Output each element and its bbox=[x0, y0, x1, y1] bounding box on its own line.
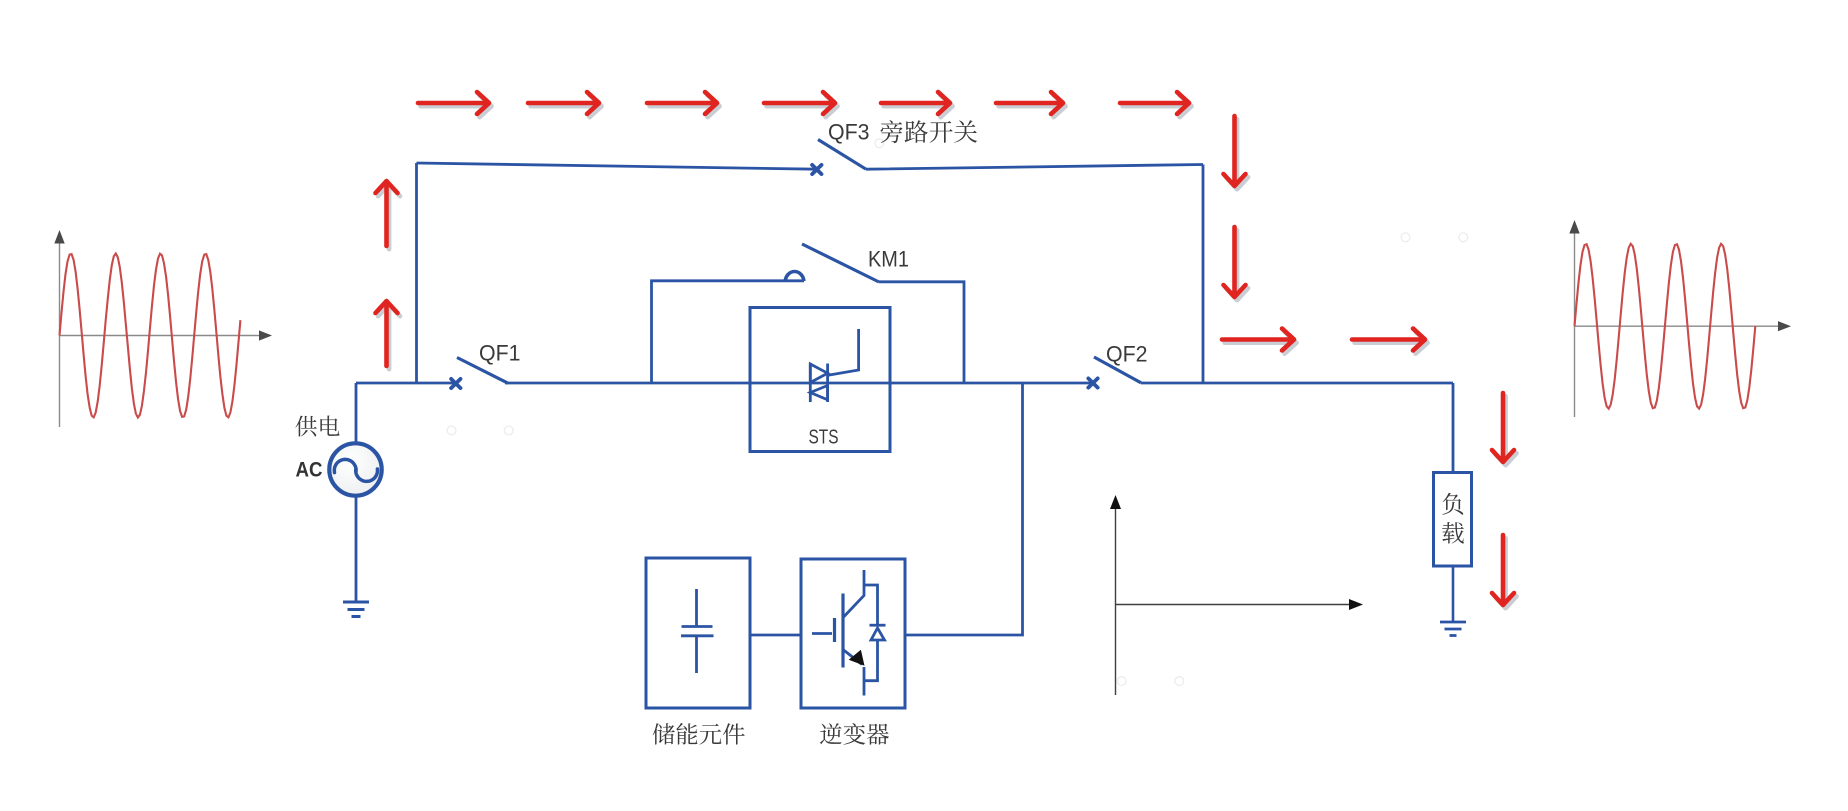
AC source top wire bbox=[355, 383, 358, 445]
contactor KM1 branch wire bbox=[652, 281, 965, 383]
load bottom wire bbox=[1452, 566, 1455, 622]
AC source bottom wire bbox=[355, 497, 358, 603]
flow arrow top 2 bbox=[528, 92, 602, 117]
bypass left riser wire bbox=[415, 163, 418, 383]
load drop wire bbox=[1452, 383, 1455, 472]
svg-text:QF2: QF2 bbox=[1106, 342, 1148, 367]
flow arrow top 4 bbox=[764, 92, 838, 117]
flow arrow load 2 bbox=[1492, 535, 1517, 608]
wire storage to inverter bbox=[750, 634, 801, 637]
energy storage box bbox=[646, 558, 750, 708]
flow arrow load 1 bbox=[1492, 393, 1517, 465]
middle chart axes bbox=[1116, 503, 1357, 695]
flow arrow right 2 bbox=[1352, 329, 1428, 354]
bypass top wire bbox=[417, 163, 1204, 169]
output sine wave (right) bbox=[1575, 244, 1756, 409]
label energy storage element bbox=[653, 723, 675, 744]
IGBT Q1 with freewheel diode bbox=[812, 570, 886, 696]
svg-text:QF1: QF1 bbox=[479, 341, 521, 366]
load ground bbox=[1440, 622, 1466, 636]
flow arrow top 5 bbox=[881, 92, 953, 117]
contactor KM1 contact bbox=[785, 244, 879, 282]
input sine wave (left) bbox=[60, 254, 241, 418]
faint artifact circles bbox=[447, 139, 1468, 686]
flow arrow right 1 bbox=[1222, 329, 1297, 354]
flow arrow top 7 bbox=[1120, 92, 1192, 117]
wire inverter to bus riser bbox=[905, 383, 1023, 635]
source ground bbox=[343, 602, 369, 617]
flow arrow top 6 bbox=[996, 92, 1066, 117]
flow arrow up 1 bbox=[376, 181, 401, 249]
flow arrow top 1 bbox=[418, 92, 492, 117]
load box bbox=[1434, 473, 1472, 567]
flow arrow down 1 bbox=[1224, 116, 1249, 189]
main bus wire (horizontal) bbox=[356, 382, 1453, 385]
STS box U1 bbox=[750, 308, 890, 452]
flow arrow up 2 bbox=[376, 301, 401, 369]
svg-text:STS: STS bbox=[809, 426, 839, 449]
flow arrow top 3 bbox=[647, 92, 720, 117]
svg-text:QF3: QF3 bbox=[828, 120, 870, 145]
label load (vertical) bbox=[1442, 493, 1463, 515]
capacitor C1 bbox=[681, 589, 714, 673]
breaker QF3 bbox=[812, 140, 866, 175]
label bypass switch (Chinese) bbox=[881, 120, 903, 143]
bypass right riser wire bbox=[1202, 165, 1205, 384]
STS bidirectional thyristor bbox=[810, 329, 858, 402]
output waveform axes (right) bbox=[1575, 226, 1786, 417]
inverter box bbox=[801, 559, 905, 708]
breaker QF2 bbox=[1088, 357, 1141, 388]
svg-text:KM1: KM1 bbox=[868, 247, 909, 272]
input waveform axes (left) bbox=[60, 236, 267, 427]
label gong dian (supply) bbox=[295, 416, 316, 437]
label inverter bbox=[820, 723, 842, 744]
svg-text:AC: AC bbox=[296, 458, 323, 482]
flow arrow down 2 bbox=[1224, 227, 1249, 300]
breaker QF1 bbox=[451, 358, 508, 389]
